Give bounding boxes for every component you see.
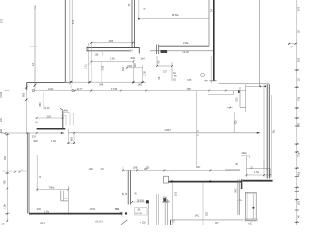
dark blob + 50: [163, 198, 170, 203]
text 59b W43: [162, 197, 167, 204]
dim ext pair x=88.8/91.3: [87, 43, 91, 82]
wall y=50.8 right segment: [150, 50, 214, 52]
svg-text:186: 186: [138, 83, 143, 86]
svg-text:165: 165: [95, 54, 100, 57]
dim extension line (x=69.9): [69, 0, 71, 84]
tiny text rows below wall: [40, 222, 104, 225]
svg-text:672: 672: [71, 19, 75, 24]
dim extension line (x=72.2): [71, 0, 72, 89]
svg-text:2.85: 2.85: [101, 65, 104, 70]
top dim texts row: [110, 57, 145, 61]
axis line A (x=35): [34, 5, 37, 89]
long dim line y=90.5: [5, 89, 246, 91]
arrowhead at (70.8,82.2): [70, 81, 73, 84]
vertical pair x=165.2/167.3: [165, 199, 167, 225]
wall left vertical (x=65.3): [65, 0, 69, 82]
small dim y=66: [156, 65, 173, 67]
wall y=46.2 door-right segment: [159, 45, 209, 47]
svg-text:14C: 14C: [195, 213, 200, 217]
thick bottom wall y=213.6: [29, 212, 127, 215]
short dim stub near right column: [288, 43, 297, 45]
right dimension column line x=296.8: [296, 0, 298, 225]
svg-text:4Wb: 4Wb: [130, 57, 136, 60]
svg-text:1Dd: 1Dd: [89, 168, 94, 171]
dim texts above y=168: [133, 166, 201, 169]
texts 784 +: [115, 208, 122, 214]
nested corner lines lower-left room: [61, 186, 69, 214]
svg-text:+2C: +2C: [248, 223, 253, 225]
WC texts: [163, 70, 177, 81]
door swing diagonal: [121, 220, 127, 225]
wall pair x=128.2/130.4: [128, 170, 130, 204]
svg-text:≥2.20: ≥2.20: [183, 51, 190, 54]
svg-text:264: 264: [134, 63, 137, 68]
dim line y=67.8: [126, 67, 143, 69]
label 40b underlined: [64, 109, 70, 112]
svg-text:+ C+: + C+: [237, 200, 243, 202]
svg-text:1931: 1931: [90, 208, 96, 211]
tall rect room: [246, 192, 257, 220]
svg-text:+0] (-C+: +0] (-C+: [95, 222, 104, 224]
second rotated 663: [39, 92, 43, 109]
riser line (x=138.9) with junction dot: [138, 0, 140, 20]
thick wall y=128.8: [37, 128, 66, 130]
dim line y=202 small: [131, 201, 149, 203]
svg-text:795a: 795a: [49, 186, 55, 190]
svg-text:1.51: 1.51: [85, 64, 88, 69]
svg-text:+2C: +2C: [1, 223, 5, 225]
room dim 795 (y=188.3): [36, 155, 69, 192]
svg-text:2N: 2N: [101, 168, 104, 171]
door jamb pair x=237.9/239.6: [238, 180, 242, 215]
svg-text:300: 300: [297, 200, 300, 205]
svg-text:40a: 40a: [297, 171, 300, 176]
svg-text:1.02: 1.02: [51, 139, 57, 143]
svg-text:1.52: 1.52: [254, 171, 259, 174]
hook wall vertical x=62.8: [60, 108, 63, 128]
svg-text:163: 163: [297, 57, 300, 62]
dim extension x=196.4: [195, 91, 197, 168]
dim chain line y=82.2: [65, 81, 146, 83]
rotated texts 45 90: [123, 192, 137, 196]
dim line y=168: [122, 166, 240, 171]
left wall pair x=27.3/29: [27, 133, 29, 214]
svg-text:350: 350: [4, 155, 7, 160]
svg-text:672: 672: [298, 6, 300, 11]
door jamb pair + sill: [157, 45, 168, 55]
svg-text:±0.00: ±0.00: [0, 91, 3, 98]
svg-text:663: 663: [22, 92, 25, 97]
svg-text:12: 12: [31, 62, 35, 66]
left dim vertical x=26.3: [25, 83, 27, 134]
svg-text:Ø Ba: Ø Ba: [172, 13, 179, 17]
svg-text:2b4: 2b4: [141, 57, 146, 60]
svg-text:226: 226: [47, 114, 52, 118]
ext line x=133.3: [132, 60, 134, 81]
svg-text:+D C: +D C: [40, 223, 46, 225]
svg-text:1B⌜: 1B⌜: [215, 222, 219, 225]
svg-text:103: 103: [174, 191, 177, 196]
svg-text:0C: 0C: [174, 219, 176, 222]
svg-text:2-Ba: 2-Ba: [183, 42, 189, 45]
svg-text:153: 153: [235, 97, 239, 102]
vertical pair x=156.4/158.5: [156, 194, 158, 225]
svg-text:403: 403: [234, 120, 237, 125]
svg-text:157: 157: [163, 70, 168, 73]
thick wall y=181.5: [164, 176, 243, 183]
svg-text:1746: 1746: [111, 87, 118, 91]
ext line x=100: [101, 62, 103, 83]
svg-text:75a: 75a: [297, 152, 300, 157]
right column tick marks: [295, 69, 299, 223]
svg-text:795: 795: [4, 180, 7, 185]
svg-text:248: 248: [99, 84, 104, 87]
dim line y=61.5: [90, 61, 134, 63]
svg-text:1.0b: 1.0b: [4, 204, 7, 209]
svg-text:290a: 290a: [242, 153, 248, 155]
svg-text:75b: 75b: [297, 96, 300, 101]
svg-text:158: 158: [187, 88, 192, 91]
small bracket 290a: [241, 153, 250, 158]
nested wall verticals right: [264, 84, 271, 178]
thick wall x=213.8: [205, 0, 217, 81]
dim line 226 (y=118): [36, 117, 64, 119]
svg-text:6N2: 6N2: [122, 66, 125, 71]
stair wall x=259.3: [259, 0, 266, 87]
svg-text:2N⌜: 2N⌜: [144, 168, 148, 171]
svg-text:G1 5(8: G1 5(8: [135, 213, 142, 215]
wall y=50.8 horizontal: [87, 50, 130, 52]
svg-text:E01: E01: [0, 117, 3, 122]
WC inner line x=172: [171, 62, 173, 81]
svg-text:009: 009: [37, 208, 42, 211]
long thin line y=18.7: [139, 18, 209, 20]
svg-text:280: 280: [297, 122, 300, 127]
svg-text:1011: 1011: [48, 87, 54, 91]
bottom line y=219.9: [171, 220, 243, 225]
svg-text:860: 860: [71, 137, 74, 142]
dimension line 165 (y=42.8): [90, 42, 133, 44]
svg-text:320: 320: [206, 211, 209, 216]
tick cluster y=171.8 left: [2, 170, 29, 173]
vertical x=234.2: [233, 112, 235, 133]
svg-text:1177: 1177: [77, 87, 83, 91]
vertical x=203: [202, 183, 204, 225]
svg-text:+ 12b: + 12b: [140, 222, 147, 225]
wall y=47.5 horizontal: [87, 47, 139, 54]
L wall x=240: [240, 87, 246, 107]
svg-text:B]: B]: [236, 163, 239, 166]
svg-text:1.5b: 1.5b: [110, 57, 115, 60]
right column rotated texts: [297, 6, 300, 218]
svg-text:1.09: 1.09: [143, 71, 146, 76]
WC room left line x=157: [156, 56, 158, 66]
texts below chain: [99, 83, 142, 86]
wall pair top-center (x=131.3 and x=133.8): [132, 0, 135, 48]
svg-text:(2.1b: (2.1b: [44, 107, 50, 110]
stub dim y=107.5: [227, 107, 233, 109]
svg-text:663: 663: [39, 102, 42, 107]
ext line x=142.5: [142, 66, 144, 82]
dark door blob: [146, 200, 149, 225]
WC fixture ellipse: [201, 74, 205, 77]
svg-text:203: 203: [32, 135, 37, 138]
nested wall horizontals top: [219, 84, 270, 113]
svg-text:40b: 40b: [64, 109, 69, 112]
dim ext x=211.2: [210, 56, 212, 84]
dim vertical x=172.7: [172, 183, 174, 225]
svg-text:165: 165: [109, 39, 114, 43]
long dim line y=133: [2, 132, 260, 134]
svg-text:1B 858: 1B 858: [137, 200, 145, 202]
wall line y=170 right: [225, 169, 240, 171]
svg-text:78 i: 78 i: [115, 208, 119, 211]
texts 009 1Do: [37, 208, 50, 214]
texts above bottom wall: [90, 208, 120, 211]
svg-text:409: 409: [33, 139, 38, 143]
svg-text:189: 189: [133, 167, 138, 170]
corridor lines near x=233: [208, 90, 240, 94]
left dim column x=5.5: [5, 133, 9, 222]
small box with text: [135, 208, 147, 216]
arrow marks near x=290 y=48: [288, 43, 296, 48]
bottom lines right: [244, 219, 258, 221]
svg-text:155: 155: [187, 79, 192, 82]
svg-text:1367: 1367: [164, 128, 171, 132]
dim ext lines x=68.4/74.1 with mini dim: [67, 129, 75, 144]
extension stubs below wall: [91, 44, 103, 57]
balcony dim y=175: [246, 174, 271, 176]
svg-text:672: 672: [1, 18, 4, 23]
left column rotated texts: [0, 117, 7, 209]
faint tick near axis A: [30, 45, 38, 47]
wall vertical x=209: [208, 0, 210, 46]
thick wall y=179.2 right: [243, 180, 273, 182]
svg-text:1R:: 1R:: [197, 166, 201, 169]
svg-text:1W6: 1W6: [127, 65, 133, 68]
wall corner y=82.5: [27, 83, 66, 91]
svg-text:84C: 84C: [234, 188, 237, 193]
small shaft lines: [61, 113, 73, 126]
balcony box: [247, 156, 271, 178]
